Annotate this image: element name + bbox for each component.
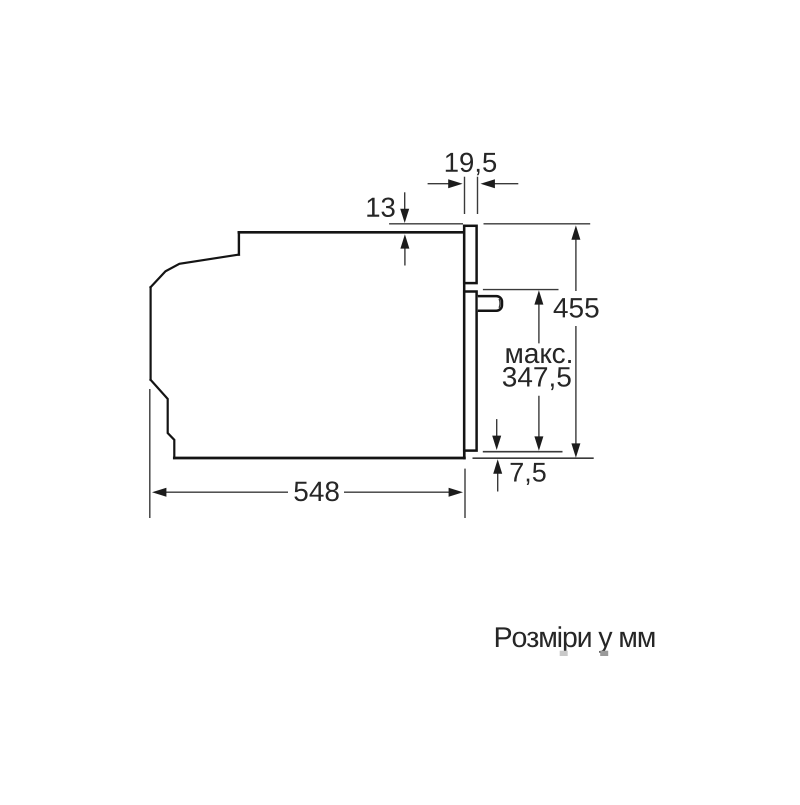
arrowhead 548 pointing right xyxy=(449,488,463,497)
arrowhead 7,5 pointing down xyxy=(492,436,501,450)
oven body outline xyxy=(151,226,465,458)
label 347,5 xyxy=(503,367,571,390)
door lower panel xyxy=(464,292,476,451)
dim 548 line xyxy=(165,491,450,493)
arrowhead 13 pointing down xyxy=(400,209,409,223)
arrowhead 455 pointing up xyxy=(571,225,580,239)
label 19,5 xyxy=(446,153,496,176)
arrowheads xyxy=(152,179,580,497)
extension line 19,5 right xyxy=(477,177,479,214)
dim 19,5 right arrow stem xyxy=(493,183,518,185)
artifact square 2 xyxy=(600,651,608,656)
extension line 548 left xyxy=(149,389,151,518)
arrowhead 19,5 pointing left xyxy=(481,179,495,188)
arrowhead 548 pointing left xyxy=(152,488,166,497)
label макс. xyxy=(507,348,571,363)
label 455 xyxy=(554,298,599,318)
label 7,5 xyxy=(511,463,546,485)
ref line A niche bottom xyxy=(483,451,563,453)
dim 455 line xyxy=(575,238,577,445)
door upper panel xyxy=(464,226,476,283)
wire oven front edge xyxy=(463,226,466,458)
dim 347,5 line xyxy=(538,303,540,438)
label Розміри у мм xyxy=(496,626,655,653)
wire left rounded shoulder xyxy=(151,255,239,288)
wire left edge xyxy=(150,287,152,380)
dim 13 down arrow stem xyxy=(404,192,406,210)
label 548 xyxy=(294,481,338,501)
door handle xyxy=(478,296,502,311)
extension line 19,5 left xyxy=(464,177,466,214)
wire oven bottom edge xyxy=(174,457,464,460)
dim 7,5 up arrow stem xyxy=(497,472,499,492)
handle end cap line xyxy=(498,299,501,308)
wire lower-left diagonal xyxy=(151,380,175,458)
arrowhead 347,5 pointing down xyxy=(534,436,543,450)
arrowhead 347,5 pointing up xyxy=(534,290,543,304)
dimension lines xyxy=(150,177,594,518)
label 13 xyxy=(367,198,394,218)
arrowhead 13 pointing up xyxy=(400,234,409,248)
artifact square 1 xyxy=(560,651,568,656)
dim 13 up arrow stem xyxy=(404,247,406,266)
extension line 548 right xyxy=(464,469,466,518)
arrowhead 19,5 pointing right xyxy=(448,179,462,188)
arrowhead 455 pointing down xyxy=(571,443,580,457)
ref line B door bottom xyxy=(473,457,594,459)
wire bottom-right step xyxy=(463,451,465,458)
wire oven top edge xyxy=(239,231,464,234)
dim 19,5 left arrow stem xyxy=(428,183,450,185)
wire top-left step xyxy=(238,232,240,254)
arrowhead 7,5 pointing up xyxy=(493,459,502,473)
dim 7,5 down arrow stem xyxy=(496,419,498,437)
ref line max top xyxy=(483,289,559,291)
ref line door-top level xyxy=(389,223,590,225)
